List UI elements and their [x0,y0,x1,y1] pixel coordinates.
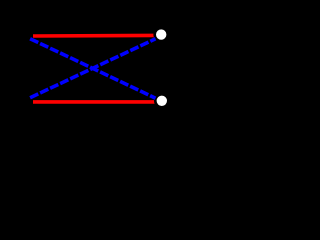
edge top red solid (L1-R1) [33,34,156,38]
node R2 (white circle, black edge) [155,94,168,107]
edge blue dashed (L1-R2) [30,39,155,98]
edge blue dashed (L2-R1) [30,39,155,98]
node R1 (white circle, black edge) [155,28,168,41]
edge bottom red solid (L2-R2) [33,100,156,104]
